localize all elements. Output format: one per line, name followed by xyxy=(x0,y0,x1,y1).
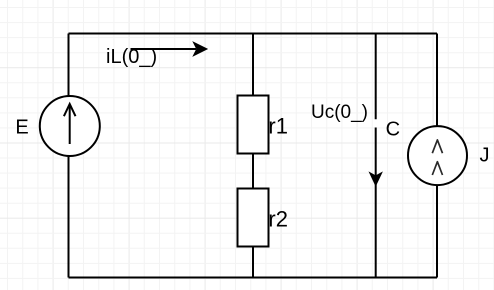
wire middle top xyxy=(252,34,254,96)
wire C lower xyxy=(375,128,377,278)
E arrow head xyxy=(64,104,76,116)
resistor r2 xyxy=(238,189,269,247)
svg-text:iL(0_): iL(0_) xyxy=(106,46,157,68)
iL arrow head xyxy=(193,42,207,56)
wire right lower xyxy=(436,186,438,278)
wire middle bottom xyxy=(252,247,254,278)
iL arrow line xyxy=(131,48,197,50)
wire left upper xyxy=(68,34,70,98)
svg-text:E: E xyxy=(15,117,28,139)
current source J xyxy=(408,126,467,185)
wire bottom xyxy=(69,277,438,279)
wire middle between r1 r2 xyxy=(252,154,254,189)
wire right upper xyxy=(436,34,438,127)
wire C upper xyxy=(375,34,377,120)
current source E xyxy=(40,96,100,156)
svg-text:J: J xyxy=(480,145,490,167)
J symbol chevron bottom xyxy=(432,162,442,175)
resistor r1 xyxy=(238,96,269,154)
wire left lower xyxy=(68,156,70,278)
E arrow shaft xyxy=(69,106,71,145)
svg-text:C: C xyxy=(386,118,400,140)
svg-text:r2: r2 xyxy=(268,206,288,231)
Uc arrow head (down) xyxy=(370,173,382,186)
J symbol chevron top xyxy=(432,140,442,153)
svg-text:r1: r1 xyxy=(268,113,288,138)
wire top xyxy=(69,33,438,35)
svg-text:Uc(0_): Uc(0_) xyxy=(311,102,368,123)
